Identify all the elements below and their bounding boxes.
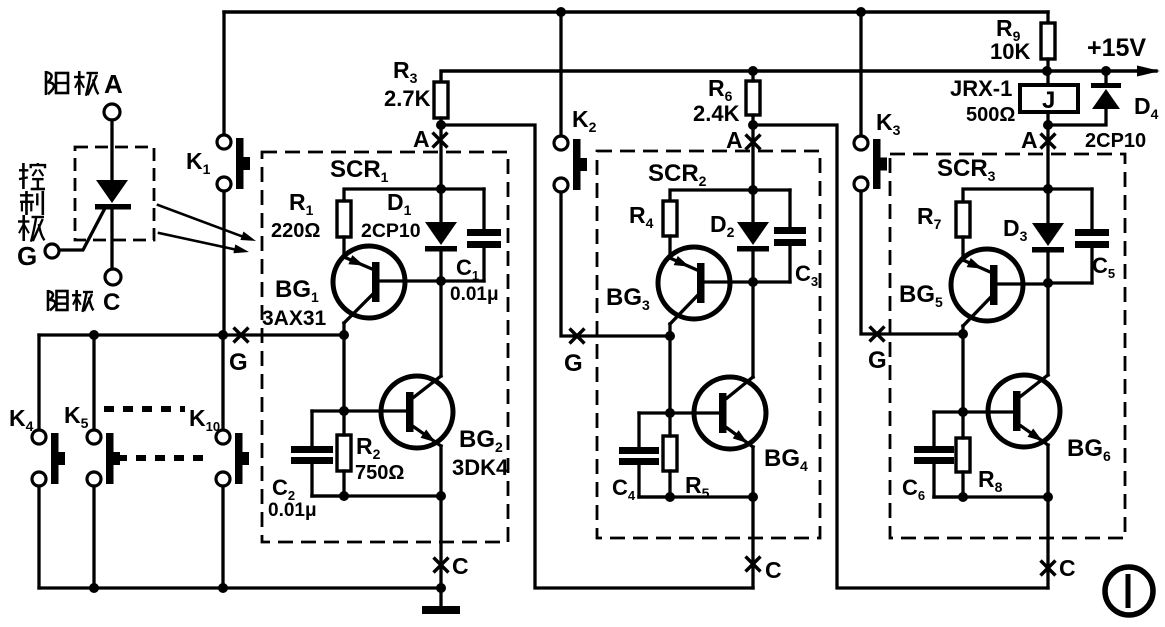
junction: bottom rail / SCR1 cathode <box>436 583 446 593</box>
svg-text:JRX-1: JRX-1 <box>950 76 1012 101</box>
label: C1 <box>456 255 479 283</box>
label: BG3 <box>606 284 650 313</box>
junction: relay/D4 to node A (SCR3) <box>1043 120 1053 130</box>
svg-text:10K: 10K <box>990 39 1030 64</box>
svg-text:A: A <box>104 69 123 99</box>
label: SCR1 <box>330 156 389 185</box>
transistor BG6 (NPN) <box>988 375 1060 447</box>
junction: R8/C6 bottom to emitter <box>1043 492 1053 502</box>
wire: R4 to BG3 emitter <box>668 236 671 258</box>
wire: R7 to BG5 emitter <box>961 237 964 260</box>
junction: BG1 collector / BG2 base / R2 / C2 <box>339 406 349 416</box>
thyristor symbol (SCR) <box>95 180 131 269</box>
resistor R2 <box>337 411 351 496</box>
capacitor C6 <box>914 412 963 497</box>
label: K2 <box>572 106 597 135</box>
label: D4 <box>1134 93 1159 122</box>
label: D2 <box>710 211 735 240</box>
svg-text:C: C <box>765 557 782 583</box>
diode D1 <box>425 189 457 281</box>
resistor R5 <box>663 413 677 497</box>
capacitor C5 <box>1048 189 1109 283</box>
label: C3 <box>795 261 818 289</box>
diode D3 <box>1032 189 1064 283</box>
wire: +15V rail <box>441 71 1156 82</box>
wire: R6 to inner top (SCR2) <box>751 125 754 190</box>
resistor R8 <box>956 412 970 497</box>
svg-text:2CP10: 2CP10 <box>361 220 421 242</box>
label: 10K <box>990 39 1030 64</box>
junction: inner top / anode line (SCR2) <box>748 185 758 195</box>
svg-text:2.7K: 2.7K <box>384 86 431 111</box>
svg-text:220Ω: 220Ω <box>271 220 320 242</box>
wire: K2 to top rail <box>559 12 562 136</box>
junction: gate rail / collector line (SCR2) <box>665 331 675 341</box>
wire: R1 to BG1 emitter <box>342 237 345 257</box>
diode D2 <box>737 190 769 282</box>
label: K10 <box>189 405 220 434</box>
dashed box: SCR2 <box>597 151 820 538</box>
label: D3 <box>1003 215 1028 244</box>
ellipsis between K5 and K10 labels <box>104 406 185 412</box>
node A (SCR1) <box>413 126 448 152</box>
label: 控制极 (control gate, vertical) <box>18 163 45 242</box>
svg-text:SCR1: SCR1 <box>330 156 389 185</box>
svg-text:A: A <box>726 127 743 153</box>
label: C5 <box>1092 253 1115 281</box>
switch K4 <box>32 430 65 486</box>
resistor R4 <box>663 201 677 236</box>
ground <box>422 588 460 614</box>
wire: R3 to node A to inner top <box>439 118 442 189</box>
svg-text:3AX31: 3AX31 <box>262 307 327 330</box>
svg-text:G: G <box>868 347 887 374</box>
label: SCR2 <box>648 160 707 189</box>
label: K1 <box>186 148 211 177</box>
transistor BG2 (NPN) <box>381 376 453 448</box>
wire: bottom rail (cathode bus) <box>39 586 441 589</box>
figure mark (1) <box>1105 567 1153 615</box>
junction: gate rail / K5 <box>89 330 99 340</box>
dashed box: SCR1 <box>262 152 508 542</box>
label: C4 <box>612 475 636 503</box>
svg-text:C: C <box>1059 555 1076 581</box>
label: R2 <box>356 433 381 462</box>
junction: +15V / D4 <box>1101 66 1111 76</box>
label: R9 <box>996 15 1021 44</box>
label: R7 <box>917 203 942 232</box>
terminal: gate G <box>45 244 59 258</box>
wire: K5 lower lead <box>92 486 95 588</box>
label: SCR3 <box>937 155 996 184</box>
junction: top rail / K3 <box>856 7 866 17</box>
node G (SCR2) <box>564 329 585 378</box>
svg-text:A: A <box>413 126 430 152</box>
junction: top rail / K2 <box>556 7 566 17</box>
svg-text:500Ω: 500Ω <box>966 104 1015 126</box>
dashed box: thyristor outline <box>75 147 154 240</box>
label: R5 <box>685 472 710 501</box>
svg-text:G: G <box>229 349 248 376</box>
power +15V arrowhead <box>1137 66 1160 77</box>
label: BG2 <box>459 426 503 455</box>
wire: BG1 collector to gate node <box>342 323 345 411</box>
svg-text:A: A <box>1021 127 1038 153</box>
wire: emitter return (SCR3) <box>934 495 1048 498</box>
label: 3AX31 <box>262 307 327 330</box>
wire: anode line to BG2 collector <box>439 281 442 376</box>
resistor R1 <box>337 201 351 237</box>
wire: chain SCR1.A to SCR2.C <box>441 125 753 588</box>
wire: K3 to top rail <box>859 12 862 136</box>
label: R3 <box>393 57 418 86</box>
node G (SCR3) <box>868 327 887 375</box>
wire: K10 upper lead <box>221 335 224 430</box>
transistor BG5 (PNP) <box>951 249 1048 326</box>
label: R1 <box>289 189 314 218</box>
label: R6 <box>708 75 733 104</box>
label: 2.4K <box>693 101 740 126</box>
svg-text:750Ω: 750Ω <box>355 462 404 484</box>
label: K3 <box>876 109 901 138</box>
wire: top supply rail <box>224 10 1048 13</box>
wire: base link to BG2 <box>344 409 406 412</box>
junction: D2/C3/BG3 base <box>748 277 758 287</box>
diode D4 <box>1048 71 1121 125</box>
wire: chain SCR2.A to SCR3.C <box>753 125 1048 588</box>
junction: BG5 collector / BG6 base / R8 / C6 <box>958 407 968 417</box>
label: R8 <box>978 466 1003 495</box>
junction: R2/C2 bottom to emitter <box>436 491 446 501</box>
label: G (gate) <box>17 241 37 271</box>
label: 220Ω <box>271 220 320 242</box>
svg-text:2.4K: 2.4K <box>693 101 740 126</box>
junction: bottom rail / K10 <box>218 583 228 593</box>
label: 阳极A (anode A) <box>46 69 123 99</box>
switch K2 <box>554 136 587 192</box>
wire: anode line to BG4 collector <box>751 282 754 377</box>
annotation arrow 2 <box>159 233 249 253</box>
capacitor C2 <box>291 411 344 496</box>
junction: BG3 collector / BG4 base / R5 / C4 <box>665 408 675 418</box>
svg-text:0.01μ: 0.01μ <box>268 500 317 521</box>
svg-text:SCR2: SCR2 <box>648 160 707 189</box>
label: 500Ω <box>966 104 1015 126</box>
junction: gate node on collector line (SCR1) <box>339 330 349 340</box>
node A (SCR2) <box>726 127 761 153</box>
label: C2 <box>272 475 295 503</box>
junction: D1/C1/BG1 base <box>436 276 446 286</box>
capacitor C4 <box>619 413 670 497</box>
wire: K1 to top rail <box>222 12 225 135</box>
label: R4 <box>629 202 654 231</box>
svg-text:0.01μ: 0.01μ <box>450 284 499 305</box>
switch K1 <box>217 135 250 191</box>
wire: K4 lower lead <box>37 486 40 588</box>
wire: K10 lower lead <box>221 486 224 588</box>
wire: base link to BG6 <box>963 410 1013 413</box>
label: 0.01μ (C2) <box>268 500 317 521</box>
resistor R6 <box>746 71 760 125</box>
node C (SCR1) <box>434 553 469 579</box>
label: 3DK4 <box>452 455 509 480</box>
label: 750Ω <box>355 462 404 484</box>
label: BG6 <box>1067 435 1111 464</box>
svg-text:C: C <box>452 553 469 579</box>
wire: inner top (SCR2) <box>670 190 790 201</box>
terminal: anode A <box>104 104 120 180</box>
label: +15V <box>1087 34 1146 62</box>
wire: top rail to R9 <box>1046 12 1049 23</box>
annotation arrow 1 <box>158 205 256 241</box>
resistor R9 <box>1041 23 1055 71</box>
wire: BG3 collector to gate node (SCR2) <box>668 324 671 413</box>
junction: node A chain takeoff (SCR2) <box>748 120 758 130</box>
node A (SCR3) <box>1021 127 1056 153</box>
junction: R5/C4 bottom to emitter <box>748 492 758 502</box>
wire: K4 upper lead <box>37 335 40 430</box>
wire: inner top (SCR3) <box>963 189 1092 202</box>
transistor BG1 (PNP) <box>333 246 441 323</box>
wire: anode line to BG6 collector <box>1046 283 1049 375</box>
wire: BG6 emitter to cathode (SCR3) <box>1046 445 1049 588</box>
junction: node A chain takeoff <box>436 120 446 130</box>
transistor BG3 (PNP) <box>658 247 753 324</box>
junction: D3/C5/BG5 base <box>1043 278 1053 288</box>
label: 2CP10 (D4) <box>1085 130 1146 152</box>
svg-text:G: G <box>17 241 37 271</box>
junction: inner top / anode line (SCR3) <box>1043 184 1053 194</box>
node C (SCR2) <box>746 557 782 584</box>
label: BG5 <box>899 281 943 310</box>
junction: bottom link (SCR2) <box>665 492 675 502</box>
wire: base link to BG4 <box>670 411 719 414</box>
svg-text:+15V: +15V <box>1087 34 1146 62</box>
transistor BG4 (NPN) <box>694 377 766 449</box>
junction: bottom link (SCR1) <box>339 491 349 501</box>
wire: gate rail G (SCR1) <box>39 333 344 336</box>
junction: bottom link (SCR3) <box>958 492 968 502</box>
wire: inner top (SCR1) <box>344 189 484 201</box>
wire: BG4 emitter to cathode (SCR2) <box>751 447 754 588</box>
label: BG1 <box>275 276 319 305</box>
resistor R3 <box>434 82 448 118</box>
wire: relay to inner top (SCR3) <box>1046 125 1049 189</box>
terminal: cathode C <box>105 269 121 285</box>
resistor R7 <box>956 202 970 237</box>
svg-text:SCR3: SCR3 <box>937 155 996 184</box>
junction: +15V / R9-relay <box>1042 66 1052 76</box>
label: 2CP10 (D1) <box>361 220 421 242</box>
junction: gate rail / collector line (SCR3) <box>958 329 968 339</box>
capacitor C3 <box>753 190 806 282</box>
wire: BG2 emitter to cathode <box>439 446 442 588</box>
label: 2.7K <box>384 86 431 111</box>
wire: K3 to gate rail (SCR3) <box>861 191 963 334</box>
switch K10 <box>216 430 249 486</box>
label: C6 <box>902 475 925 503</box>
wire: K5 upper lead <box>92 335 95 430</box>
switch K5 <box>87 430 120 486</box>
wire: gate lead <box>60 210 104 250</box>
wire: emitter return (SCR2) <box>639 495 753 498</box>
capacitor C1 <box>441 189 501 281</box>
junction: gate rail / K1-K10 <box>218 330 228 340</box>
label: 阴极C (cathode C) <box>48 289 120 316</box>
switch K3 <box>854 136 887 191</box>
junction: +15V / R6 <box>748 66 758 76</box>
wire: K2 to gate rail (SCR2) <box>561 192 670 336</box>
relay J (JRX-1 500Ω) <box>1020 71 1078 125</box>
ellipsis between K5 and K10 switches <box>117 455 203 461</box>
node G (SCR1) <box>229 328 249 377</box>
node C (SCR3) <box>1041 555 1076 581</box>
label: K5 <box>64 402 89 431</box>
svg-text:2CP10: 2CP10 <box>1085 130 1146 152</box>
svg-text:3DK4: 3DK4 <box>452 455 509 480</box>
junction: inner top / anode line (SCR1) <box>436 184 446 194</box>
svg-text:J: J <box>1042 87 1055 114</box>
label: 0.01μ (C1) <box>450 284 499 305</box>
junction: bottom rail / K5 <box>89 583 99 593</box>
svg-text:G: G <box>564 350 583 377</box>
wire: K1 to gate rail <box>222 191 225 335</box>
label: BG4 <box>764 445 808 474</box>
label: JRX-1 <box>950 76 1012 101</box>
svg-text:C: C <box>103 289 120 316</box>
label: D1 <box>387 189 412 218</box>
dashed box: SCR3 <box>890 154 1125 538</box>
wire: emitter return (SCR1) <box>312 494 441 497</box>
wire: BG5 collector to gate node (SCR3) <box>961 326 964 412</box>
label: K4 <box>9 405 34 434</box>
